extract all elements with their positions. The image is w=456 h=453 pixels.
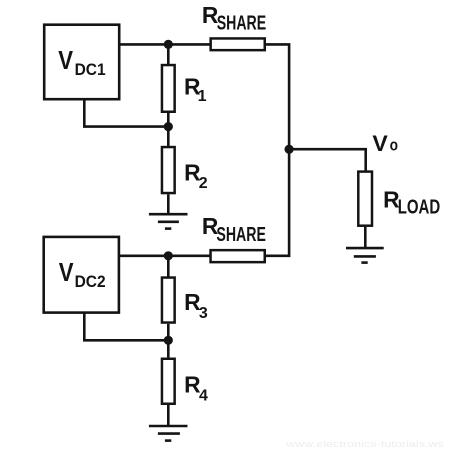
wire node Vo to R_LOAD top [289,149,366,171]
resistor R_SHARE (bottom) [211,250,265,262]
resistor R3 [162,278,175,323]
svg-text:SHARE: SHARE [217,13,267,35]
label R_SHARE (top) [202,2,266,34]
ground (below R2) [149,214,188,228]
wire R4 bottom to ground [167,405,170,426]
svg-text:SHARE: SHARE [216,224,266,246]
wire VDC2 right to R_SHARE bottom [120,255,210,258]
label Vo [372,131,398,156]
wire VDC2 bottom leg to node D [84,313,168,341]
svg-text:1: 1 [198,88,207,105]
svg-text:o: o [390,137,398,155]
label R4 [184,372,208,405]
svg-text:2: 2 [199,175,208,192]
label R_LOAD [383,187,440,219]
wire bus: R_SHARE top right, down right side, to R_SHARE bottom right [266,44,289,255]
svg-text:DC2: DC2 [75,273,106,291]
svg-text:3: 3 [199,305,208,322]
svg-text:LOAD: LOAD [398,197,441,219]
label R3 [184,289,208,322]
wire node B down to R2 [167,127,170,146]
resistor R_LOAD [358,172,372,226]
node B junction dot [164,122,173,131]
svg-text:DC1: DC1 [75,61,106,79]
node C junction dot [164,251,173,260]
wire node D down to R4 [167,340,170,357]
voltage source VDC2 [44,237,119,313]
label V_DC1 [58,47,105,79]
svg-text:V: V [58,47,73,75]
node Vo junction dot on bus [285,145,294,154]
svg-text:V: V [59,259,74,287]
resistor R4 [162,359,175,404]
label V_DC2 [59,259,106,291]
wire R1 bottom to node B [167,113,170,127]
wire R2 bottom to ground [167,194,170,214]
node D junction dot [164,336,173,345]
wire R_LOAD bottom to ground [364,227,367,248]
wire node A down to R1 [167,44,170,64]
label R1 [184,74,207,105]
label R2 [184,160,208,193]
resistor R_SHARE (top) [211,38,265,50]
ground (below R4) [149,426,188,441]
node A junction dot [164,40,173,49]
voltage source VDC1 [44,25,119,100]
wire R3 bottom to node D [167,324,170,341]
label R_SHARE (bottom) [202,213,266,246]
wire VDC1 bottom leg to node B [84,99,168,126]
svg-text:www.electronics-tutorials.ws: www.electronics-tutorials.ws [285,439,445,448]
resistor R1 [162,65,175,112]
resistor R2 [162,147,175,193]
ground (below R_LOAD) [346,248,384,263]
svg-text:V: V [372,131,387,156]
wire node C down to R3 [167,256,170,277]
svg-text:4: 4 [199,388,208,405]
wire VDC1 right to R_SHARE top [120,43,209,46]
